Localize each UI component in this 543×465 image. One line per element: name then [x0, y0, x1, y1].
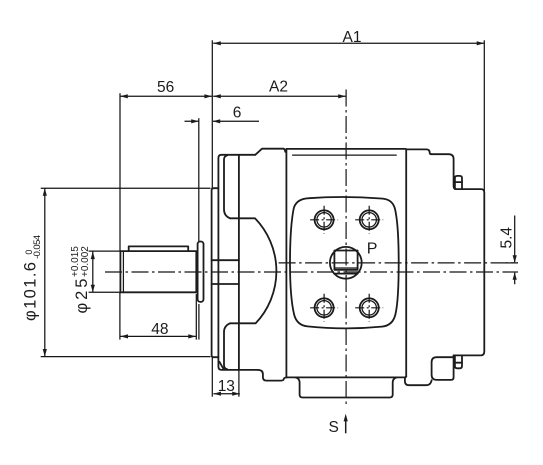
rear cover top tab	[455, 176, 462, 189]
bolt hole bottom-left	[310, 294, 338, 322]
main body front face	[285, 150, 287, 378]
svg-text:A2: A2	[269, 79, 288, 96]
flange relief bottom	[224, 323, 230, 369]
shaft	[120, 251, 196, 292]
extension line 13 left	[211, 357, 213, 397]
port P circle	[330, 247, 362, 279]
flange relief top	[224, 155, 230, 218]
extension line 6	[198, 118, 200, 241]
extension line 48 right	[195, 294, 197, 340]
extension line 56 left	[119, 93, 121, 251]
cover bottom step	[258, 370, 287, 381]
pilot boss phi101.6	[212, 188, 219, 357]
seal bore line upper	[212, 259, 239, 261]
rear cover tab top inner line	[455, 181, 462, 183]
port S vertical centerline	[345, 90, 347, 405]
main body top edge	[286, 148, 405, 150]
svg-text:56: 56	[157, 79, 174, 96]
dimension A2	[213, 79, 346, 99]
shaft centerline	[105, 271, 518, 273]
bolt hole top-right	[355, 206, 383, 234]
dimension 13	[213, 378, 239, 396]
svg-text:S: S	[329, 419, 339, 436]
svg-text:φ101.6: φ101.6	[22, 262, 40, 321]
rear cover tab bottom inner line	[455, 362, 462, 364]
main body rear face	[405, 149, 407, 376]
svg-text:A1: A1	[343, 29, 362, 46]
extension line 48 left	[119, 293, 121, 340]
dimension 56	[120, 79, 212, 98]
rear cover top hump	[406, 149, 431, 154]
dimension 6	[185, 104, 260, 123]
front cover top chamfer and collar	[255, 149, 285, 155]
shaft key	[129, 246, 189, 251]
port pad outline	[290, 197, 399, 328]
svg-text:P: P	[367, 241, 378, 258]
bolt hole top-left	[310, 206, 338, 234]
extension line left reference	[211, 40, 213, 188]
dimension A1	[213, 29, 484, 46]
svg-text:5.4: 5.4	[499, 227, 516, 249]
port square inner line	[334, 267, 357, 269]
flange rear face	[238, 155, 240, 370]
shaft chamfer	[122, 251, 124, 292]
rear cover bottom tab	[455, 355, 462, 368]
port lower chord	[334, 273, 357, 275]
dimension 48	[120, 321, 195, 339]
svg-text:+0.002: +0.002	[80, 246, 91, 277]
extension line A1 right	[483, 40, 485, 191]
bell curve	[230, 218, 276, 323]
svg-text:48: 48	[151, 321, 168, 338]
rear cover top block and right face	[431, 154, 484, 355]
body top inner line	[292, 154, 397, 156]
svg-text:φ25: φ25	[73, 279, 91, 314]
port P centerline horizontal	[279, 262, 518, 264]
svg-text:-0.054: -0.054	[32, 235, 43, 259]
retaining ring	[198, 242, 204, 302]
extension line 13 right	[238, 370, 240, 397]
S port boss	[295, 377, 397, 397]
port P square	[334, 251, 357, 270]
dimension phi101.6	[22, 188, 211, 356]
seal bore line lower	[212, 283, 239, 285]
body bottom edge	[287, 376, 406, 378]
dimension 5.4	[499, 216, 517, 285]
flange bottom chamfer	[219, 362, 224, 370]
extension line 48 right capsule	[198, 304, 200, 340]
bolt hole bottom-right	[355, 294, 383, 322]
dimension phi25	[70, 246, 120, 314]
S arrow	[345, 420, 347, 433]
rear cover bottom block	[432, 355, 454, 380]
front flange plate	[218, 155, 257, 370]
svg-text:13: 13	[218, 378, 235, 395]
svg-text:6: 6	[233, 104, 242, 121]
rear cover bottom hump	[405, 377, 432, 386]
